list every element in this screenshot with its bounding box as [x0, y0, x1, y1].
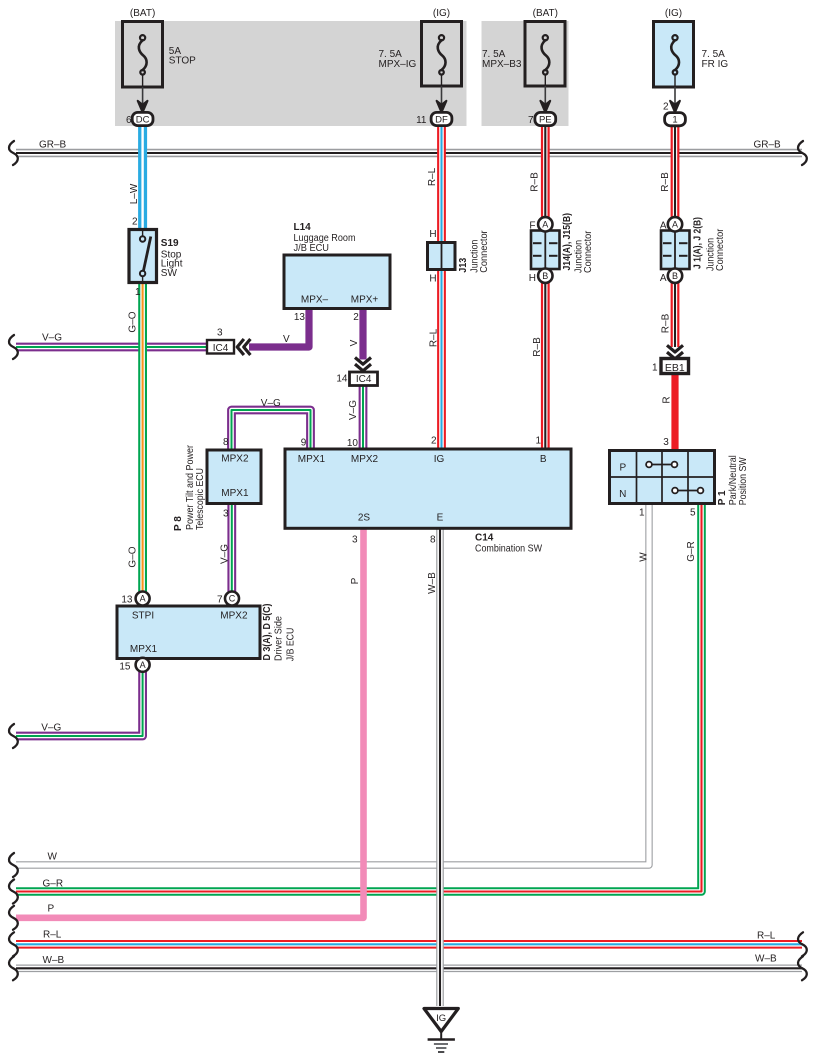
svg-text:9: 9 [301, 438, 307, 449]
svg-text:F: F [529, 221, 535, 232]
svg-text:R–L: R–L [427, 167, 438, 186]
svg-text:L–W: L–W [129, 183, 140, 204]
svg-text:C: C [229, 594, 236, 604]
svg-text:Park/Neutral: Park/Neutral [728, 455, 739, 505]
svg-text:R–L: R–L [428, 328, 439, 347]
svg-text:C14: C14 [475, 533, 494, 544]
svg-text:V–G: V–G [41, 723, 61, 734]
svg-text:N: N [619, 489, 626, 500]
svg-text:(IG): (IG) [433, 8, 450, 19]
svg-text:(BAT): (BAT) [130, 8, 155, 19]
svg-text:H: H [429, 273, 436, 284]
svg-text:GR–B: GR–B [39, 140, 67, 151]
svg-text:SW: SW [161, 268, 178, 279]
svg-text:V–G: V–G [219, 544, 230, 564]
svg-text:14: 14 [336, 374, 348, 385]
svg-text:GR–B: GR–B [754, 140, 782, 151]
svg-text:7: 7 [217, 595, 223, 606]
svg-text:Driver Side: Driver Side [273, 616, 284, 661]
svg-text:R–B: R–B [529, 172, 540, 192]
svg-text:J13: J13 [458, 257, 469, 272]
svg-text:IC4: IC4 [213, 343, 229, 354]
svg-text:3: 3 [217, 328, 223, 339]
svg-text:DF: DF [435, 114, 448, 125]
svg-text:MPX–: MPX– [301, 295, 329, 306]
svg-text:Connector: Connector [715, 228, 726, 271]
svg-text:P: P [619, 463, 626, 474]
svg-text:A: A [140, 594, 146, 604]
svg-text:A: A [672, 220, 678, 230]
svg-text:L14: L14 [294, 222, 312, 233]
svg-text:G–R: G–R [686, 541, 697, 562]
svg-text:G–R: G–R [43, 879, 64, 890]
svg-text:P 8: P 8 [173, 516, 184, 531]
svg-text:P: P [350, 577, 361, 584]
svg-text:8: 8 [223, 437, 229, 448]
svg-text:MPX2: MPX2 [221, 454, 249, 465]
svg-text:A: A [542, 220, 548, 230]
svg-text:P 1: P 1 [717, 490, 728, 505]
svg-text:G–O: G–O [127, 546, 138, 567]
svg-text:Combination SW: Combination SW [475, 544, 542, 555]
svg-text:FR IG: FR IG [702, 59, 729, 70]
svg-text:A: A [660, 221, 667, 232]
svg-text:13: 13 [294, 312, 306, 323]
svg-text:MPX1: MPX1 [221, 488, 249, 499]
svg-text:A: A [660, 273, 667, 284]
svg-text:MPX–B3: MPX–B3 [482, 59, 522, 70]
svg-text:B: B [542, 271, 548, 281]
svg-text:J/B ECU: J/B ECU [294, 243, 330, 254]
svg-text:1: 1 [672, 115, 677, 126]
svg-text:D 3(A), D 5(C): D 3(A), D 5(C) [262, 604, 273, 661]
svg-text:MPX2: MPX2 [220, 611, 248, 622]
svg-text:W: W [638, 552, 649, 562]
svg-text:W–B: W–B [43, 955, 65, 966]
svg-text:7: 7 [528, 115, 534, 126]
svg-text:MPX1: MPX1 [298, 454, 326, 465]
svg-text:3: 3 [352, 535, 358, 546]
svg-text:P: P [48, 904, 55, 915]
svg-text:R–L: R–L [43, 930, 62, 941]
svg-text:J14(A), J15(B): J14(A), J15(B) [562, 213, 573, 271]
svg-text:(BAT): (BAT) [533, 8, 558, 19]
svg-text:STPI: STPI [132, 611, 154, 622]
svg-text:B: B [672, 271, 678, 281]
svg-text:PE: PE [539, 114, 552, 125]
svg-text:W–B: W–B [755, 954, 777, 965]
svg-text:3: 3 [663, 437, 669, 448]
svg-text:EB1: EB1 [665, 362, 685, 374]
svg-text:B: B [540, 454, 547, 465]
svg-text:MPX1: MPX1 [130, 644, 158, 655]
svg-text:1: 1 [652, 363, 658, 374]
svg-text:IC4: IC4 [356, 374, 372, 385]
svg-text:2: 2 [663, 102, 669, 113]
svg-text:DC: DC [136, 114, 150, 125]
svg-text:MPX+: MPX+ [351, 295, 379, 306]
svg-text:R–B: R–B [532, 337, 543, 357]
svg-text:10: 10 [347, 438, 359, 449]
svg-text:V: V [283, 334, 290, 345]
svg-text:R–B: R–B [660, 172, 671, 192]
svg-text:E: E [437, 513, 444, 524]
svg-text:3: 3 [223, 509, 229, 520]
svg-text:W: W [48, 852, 58, 863]
svg-text:V–G: V–G [261, 398, 281, 409]
svg-text:J/B ECU: J/B ECU [285, 628, 296, 662]
svg-text:MPX2: MPX2 [351, 454, 379, 465]
svg-text:13: 13 [121, 595, 133, 606]
svg-text:R–B: R–B [660, 313, 671, 333]
svg-text:1: 1 [135, 287, 141, 298]
svg-text:STOP: STOP [169, 55, 196, 66]
svg-text:Connector: Connector [479, 230, 490, 273]
svg-text:5: 5 [690, 508, 696, 519]
svg-text:V–G: V–G [42, 333, 62, 344]
svg-text:2: 2 [431, 436, 437, 447]
svg-text:H: H [429, 229, 436, 240]
svg-text:IG: IG [436, 1013, 446, 1024]
svg-text:V–G: V–G [348, 400, 359, 420]
svg-text:1: 1 [639, 508, 645, 519]
svg-text:IG: IG [434, 454, 445, 465]
svg-text:J 1(A), J 2(B): J 1(A), J 2(B) [692, 217, 703, 269]
svg-text:MPX–IG: MPX–IG [379, 59, 417, 70]
svg-text:2S: 2S [358, 513, 371, 524]
svg-text:A: A [140, 660, 146, 670]
svg-text:W–B: W–B [427, 572, 438, 594]
svg-text:8: 8 [430, 535, 436, 546]
svg-text:2: 2 [353, 312, 359, 323]
svg-text:11: 11 [416, 115, 427, 126]
svg-text:Telescopic ECU: Telescopic ECU [195, 468, 206, 530]
svg-text:S19: S19 [161, 238, 179, 249]
svg-text:15: 15 [119, 662, 131, 673]
svg-text:2: 2 [132, 217, 138, 228]
svg-text:H: H [529, 273, 536, 284]
svg-text:G–O: G–O [127, 311, 138, 332]
svg-text:R–L: R–L [757, 931, 776, 942]
svg-text:(IG): (IG) [665, 8, 682, 19]
svg-text:R: R [661, 396, 672, 403]
svg-text:1: 1 [535, 436, 541, 447]
svg-text:Position SW: Position SW [738, 457, 749, 505]
svg-text:Connector: Connector [583, 230, 594, 273]
svg-text:V: V [349, 339, 360, 346]
svg-text:6: 6 [126, 115, 132, 126]
